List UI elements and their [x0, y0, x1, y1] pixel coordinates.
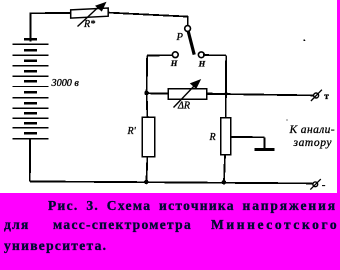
- resistor R* arrow: [78, 6, 101, 27]
- wire down to switch pivot: [187, 16, 189, 26]
- wire right contact to right rail: [203, 54, 226, 56]
- resistor dR body: [168, 89, 207, 100]
- svg-text:Р: Р: [176, 32, 184, 43]
- magenta stripe right edge: [337, 0, 340, 193]
- caption band: [0, 193, 340, 270]
- terminal minus circle: [313, 182, 318, 187]
- resistor R body: [221, 118, 231, 155]
- wire down to ground: [264, 137, 266, 149]
- wire right rail down to R: [225, 55, 228, 118]
- terminal plus circle: [314, 93, 319, 98]
- wire junction to dR: [147, 92, 169, 94]
- resistor dR arrow: [174, 84, 197, 108]
- battery 3000V : short thick plates: [24, 39, 37, 133]
- svg-text:3000 в: 3000 в: [51, 78, 80, 89]
- wire battery top to corner: [30, 13, 32, 41]
- resistor R* body: [71, 8, 109, 18]
- wire dR right stub: [207, 93, 213, 96]
- stray dot: [286, 119, 288, 121]
- wire R right side toward ground: [231, 136, 265, 138]
- wire R down to bottom rail: [224, 155, 225, 183]
- svg-text:т: т: [324, 92, 329, 102]
- switch P pivot contact: [185, 26, 191, 32]
- wire bottom rail: [30, 181, 313, 183]
- wire dR to plus terminal: [207, 94, 314, 96]
- battery 3000V : long thin plates: [13, 44, 49, 139]
- wire battery bottom down: [29, 139, 31, 182]
- svg-text:R': R': [127, 126, 137, 137]
- wire junction down to R': [146, 93, 149, 117]
- svg-text:К анали-: К анали-: [289, 124, 336, 136]
- wire R* to switch corner: [108, 13, 188, 17]
- svg-text:R: R: [209, 132, 216, 143]
- terminal plus slash: [311, 90, 322, 101]
- circuit schematic: [0, 0, 340, 193]
- svg-text:затору: затору: [293, 137, 333, 149]
- junction node C: [222, 180, 227, 185]
- svg-text:-: -: [322, 179, 326, 191]
- switch P blade: [188, 32, 194, 55]
- junction node A: [144, 91, 149, 96]
- junction node B: [144, 180, 149, 185]
- svg-text:R*: R*: [83, 19, 95, 30]
- svg-text:Н: Н: [170, 58, 178, 68]
- wire top horizontal to R*: [30, 12, 71, 14]
- svg-text:Н: Н: [198, 58, 206, 68]
- terminal minus slash: [310, 179, 321, 190]
- switch right contact: [198, 52, 204, 58]
- resistor R' body: [142, 117, 154, 156]
- junction node D: [225, 92, 228, 95]
- stray dot: [304, 39, 306, 41]
- wire left rail down to junction: [146, 56, 149, 94]
- switch left contact: [172, 52, 178, 58]
- wire R' down to bottom rail: [146, 157, 147, 183]
- svg-text:ΔR: ΔR: [177, 101, 190, 112]
- wire left contact to left rail: [147, 54, 172, 56]
- ground: [255, 148, 275, 151]
